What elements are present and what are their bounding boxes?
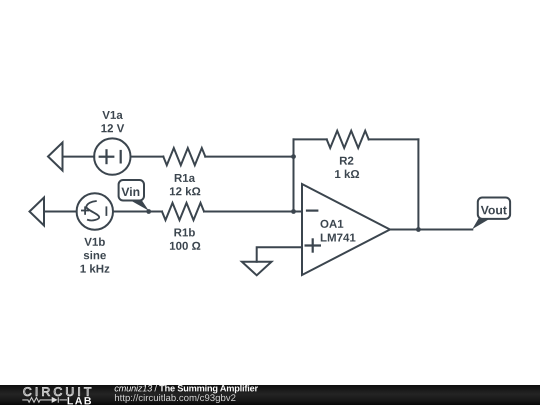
- wire V1a to R1a: [131, 156, 164, 158]
- wire feedback left vertical: [293, 139, 295, 211]
- label R1b name: [174, 228, 194, 236]
- V1b sine squiggle: [86, 201, 99, 220]
- net flag Vout text: [481, 206, 507, 215]
- wire OA1 output: [390, 229, 472, 231]
- junction node Vin dot: [146, 209, 151, 214]
- label R2 name: [340, 157, 353, 165]
- wire node B to OA1 minus input: [294, 211, 303, 213]
- logo wire-resistor-diode: [22, 397, 67, 403]
- footer title line: [115, 385, 258, 394]
- voltage source V1b body: [77, 193, 113, 229]
- V1b minus mark: [105, 207, 107, 215]
- wire feedback right vertical: [417, 139, 419, 229]
- label OA1 part: [321, 234, 356, 242]
- wire R1a to node A: [205, 156, 293, 158]
- label R1b value: [170, 242, 200, 250]
- footer bar: [0, 385, 540, 405]
- label R1a value: [170, 187, 200, 195]
- V1a minus terminal mark: [120, 151, 122, 162]
- OA1 non-inverting input mark: [306, 239, 320, 251]
- label R1a name: [175, 174, 195, 182]
- label V1b type: [84, 251, 106, 259]
- resistor R1a body: [163, 148, 205, 165]
- wire R2 to right vertical: [369, 138, 419, 140]
- V1b plus mark: [82, 207, 88, 214]
- label R2 value: [335, 170, 359, 178]
- Vout flag box: [478, 198, 510, 219]
- ground flag GND2 (left terminal of V1b): [30, 198, 45, 226]
- wire OA1 plus input to ground: [257, 247, 302, 261]
- label V1b name: [84, 237, 105, 245]
- label V1b value: [81, 264, 110, 272]
- logo CIRCUIT outline text: [24, 387, 92, 396]
- logo diode triangle: [52, 397, 58, 403]
- resistor R1b body: [162, 203, 204, 220]
- wire R1b to node B: [204, 211, 294, 213]
- junction node A dot: [291, 154, 296, 159]
- label OA1 name: [320, 220, 343, 228]
- ground flag GND1 (left terminal of V1a): [48, 143, 63, 171]
- net flag Vin text: [121, 187, 139, 196]
- op-amp OA1 body: [302, 184, 390, 275]
- Vout flag pointer: [472, 218, 490, 229]
- Vin flag pointer: [131, 201, 149, 211]
- wire V1b to R1b through node Vin: [113, 211, 162, 213]
- junction output node dot: [416, 227, 421, 232]
- resistor R2 body: [327, 131, 369, 148]
- V1a plus terminal mark: [100, 150, 114, 163]
- junction node B dot: [291, 209, 296, 214]
- wire feedback top left segment: [294, 138, 327, 140]
- wire GND1 to V1a: [63, 156, 95, 158]
- footer url line: [115, 394, 236, 403]
- logo LAB text: [68, 397, 91, 404]
- label V1a value: [101, 124, 124, 132]
- wire GND2 to V1b: [44, 211, 77, 213]
- Vin flag box: [119, 180, 144, 201]
- ground GND3: [242, 262, 272, 276]
- label V1a name: [102, 111, 122, 119]
- OA1 inverting input mark: [307, 210, 317, 212]
- voltage source V1a body: [94, 138, 130, 174]
